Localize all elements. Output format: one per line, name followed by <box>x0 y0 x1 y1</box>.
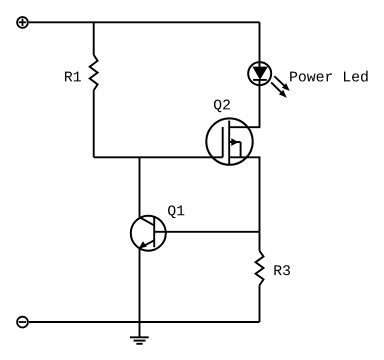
label Power Led <box>290 71 367 82</box>
wire top rail from + terminal to LED branch <box>29 21 260 23</box>
Q1 emitter arrowhead <box>139 241 147 248</box>
resistor R1 <box>90 22 98 157</box>
Q2 substrate arrowhead <box>231 138 238 146</box>
wire LED cathode to Q2 drain <box>229 80 259 127</box>
wire gate rail from R1 to Q2 gate <box>94 156 223 158</box>
wire Q1 base lead to R3 rail <box>154 231 259 233</box>
transistor Q1 <box>131 216 166 251</box>
label Q1 <box>168 205 184 218</box>
terminal - (negative supply) <box>17 317 28 328</box>
label R1 <box>65 72 81 82</box>
ground <box>130 322 149 344</box>
label Q2 <box>214 99 230 112</box>
wire LED anode drop <box>259 22 261 67</box>
LED light emission arrow upper <box>274 76 290 91</box>
LED light emission arrow lower <box>271 82 287 97</box>
MOSFET Q2 <box>206 118 252 164</box>
wire gate rail junction down to Q1 collector <box>139 157 141 217</box>
wire Q2 source to R3 rail <box>229 157 259 232</box>
label R3 <box>274 265 290 275</box>
wire bottom rail from - terminal to R3 <box>29 321 260 323</box>
resistor R3 <box>256 232 264 322</box>
terminal + (positive supply) <box>17 17 28 28</box>
LED D1 Power Led <box>248 62 271 85</box>
wire Q1 emitter down to bottom rail <box>139 248 141 322</box>
